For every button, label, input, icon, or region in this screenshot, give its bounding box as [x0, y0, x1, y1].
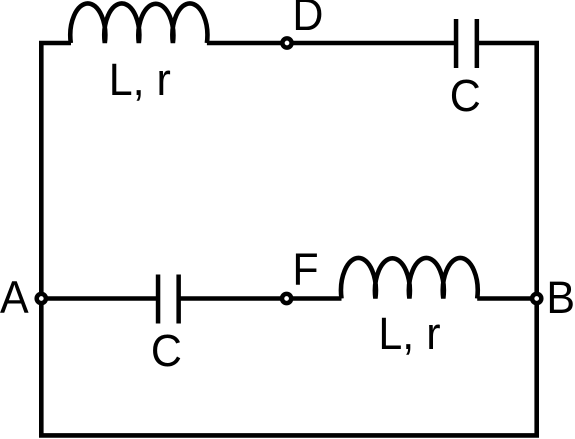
node B: [532, 294, 541, 303]
svg-text:A: A: [0, 272, 29, 322]
svg-text:L, r: L, r: [109, 55, 171, 105]
inductor L,r (top): [70, 3, 207, 43]
svg-text:C: C: [450, 71, 481, 121]
wire capacitor to top-right corner: [477, 41, 539, 46]
wire inductor to B: [477, 296, 537, 301]
svg-text:L, r: L, r: [378, 309, 440, 359]
wire right vertical B-side: [534, 43, 539, 435]
wire top-left stub: [39, 41, 71, 46]
wire inductor to D: [207, 41, 287, 46]
node D: [282, 38, 291, 47]
wire D to capacitor C (top): [287, 41, 456, 46]
inductor L,r (middle right): [341, 258, 478, 299]
svg-text:B: B: [546, 273, 575, 323]
wire A to capacitor C (middle): [41, 296, 158, 301]
node F: [282, 294, 291, 303]
wire left vertical A-side: [39, 43, 44, 435]
svg-text:F: F: [292, 245, 318, 295]
capacitor C (top) left plate: [454, 19, 459, 68]
capacitor C (top) right plate: [475, 19, 480, 68]
capacitor C (middle) right plate: [176, 275, 181, 324]
capacitor C (middle) left plate: [156, 275, 161, 324]
svg-text:D: D: [292, 0, 323, 40]
node A: [37, 294, 46, 303]
svg-text:C: C: [151, 326, 182, 376]
wire bottom: [39, 433, 539, 438]
wire capacitor through F to inductor: [179, 296, 342, 301]
